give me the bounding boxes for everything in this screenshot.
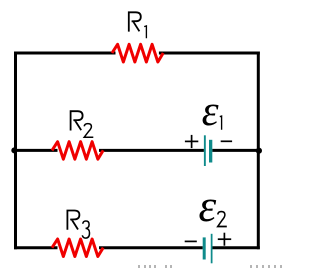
svg-text:ε: ε [199,181,217,231]
svg-text:ε: ε [202,88,219,135]
